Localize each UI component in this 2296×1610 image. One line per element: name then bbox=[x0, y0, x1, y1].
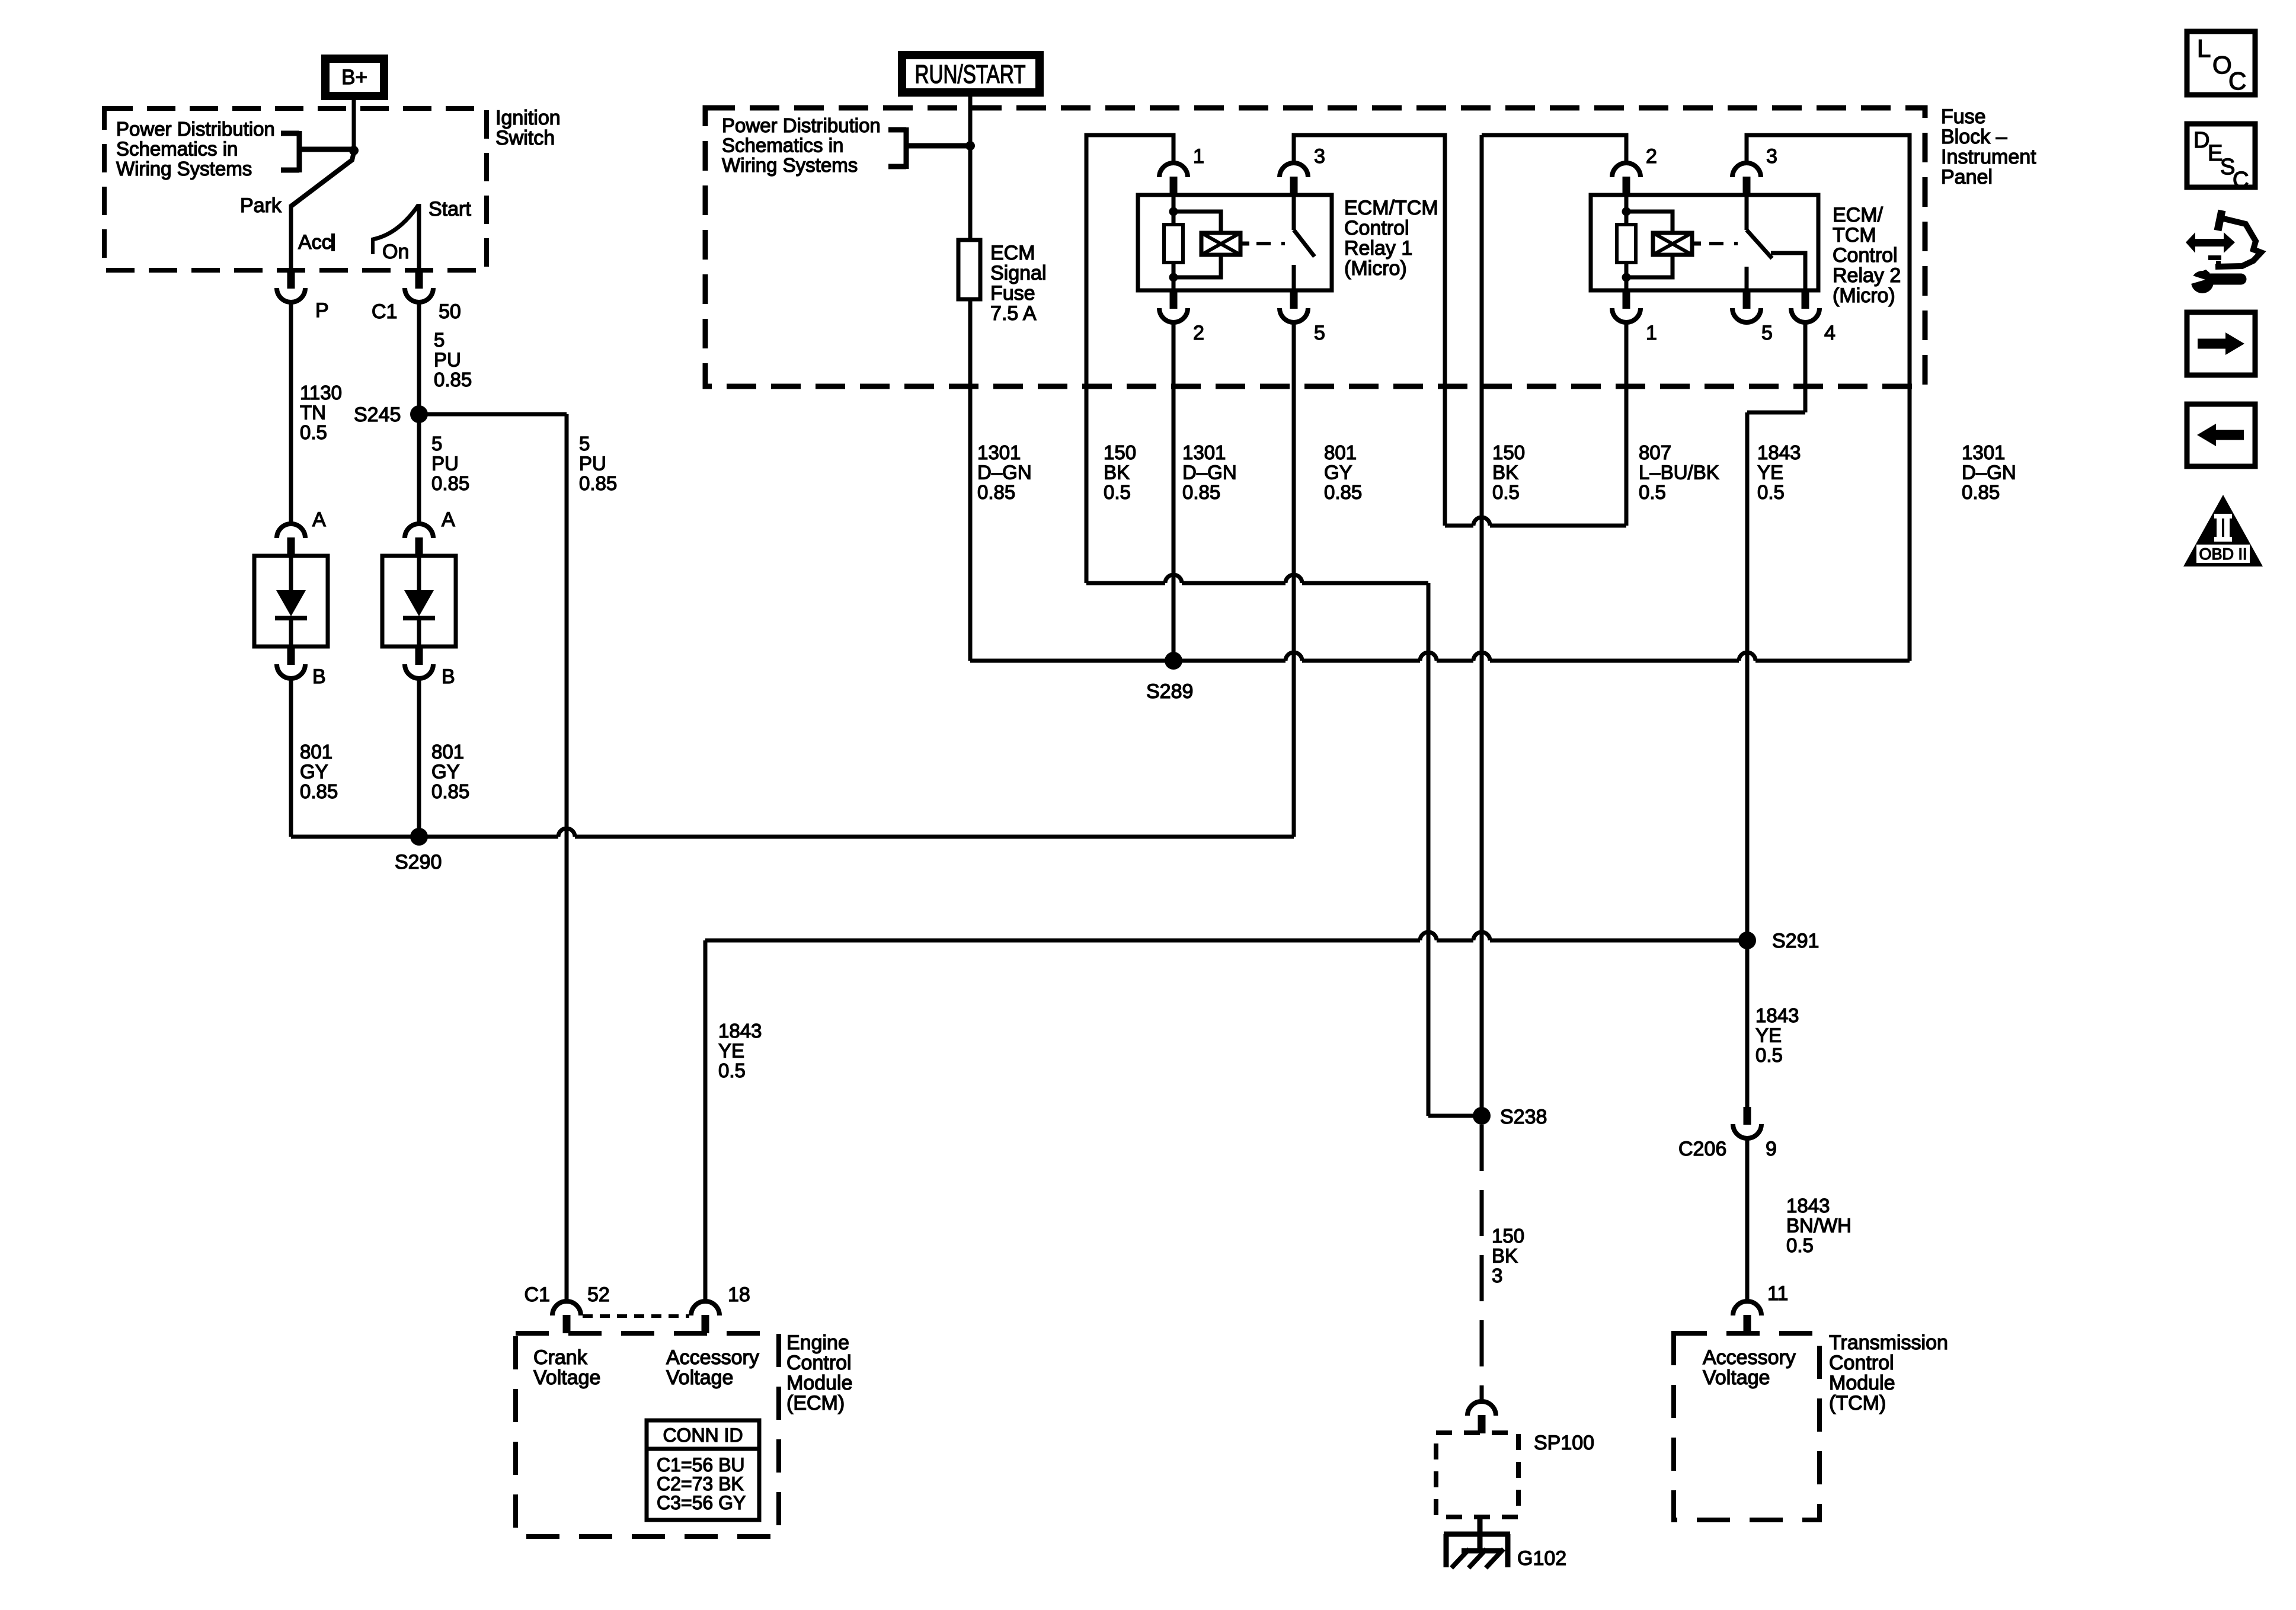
node relay1 top bbox=[1169, 207, 1178, 216]
svg-text:(TCM): (TCM) bbox=[1829, 1392, 1886, 1414]
connector ECM pin 52 bbox=[563, 1315, 571, 1333]
svg-text:GY: GY bbox=[300, 761, 328, 783]
icon forward arrow box bbox=[2187, 312, 2255, 375]
svg-text:Panel: Panel bbox=[1941, 166, 1993, 188]
icon back arrow box bbox=[2187, 404, 2255, 466]
wire 807 L-BU/BK 0.5 (relay2 pin1) bbox=[1625, 321, 1629, 526]
svg-text:Power Distribution: Power Distribution bbox=[722, 114, 881, 136]
svg-text:RUN/START: RUN/START bbox=[915, 60, 1026, 89]
svg-text:Voltage: Voltage bbox=[1703, 1366, 1770, 1389]
svg-text:Module: Module bbox=[1829, 1372, 1895, 1394]
node S238 bbox=[1473, 1107, 1491, 1125]
Acc position tick bbox=[331, 233, 335, 251]
svg-text:BK: BK bbox=[1492, 1245, 1518, 1267]
svg-text:0.5: 0.5 bbox=[1639, 481, 1666, 503]
svg-text:150: 150 bbox=[1492, 1225, 1524, 1247]
connector C206 pin 9 bbox=[1744, 1107, 1751, 1125]
svg-text:C: C bbox=[2228, 67, 2246, 95]
svg-text:5: 5 bbox=[1761, 322, 1773, 344]
svg-text:Block –: Block – bbox=[1941, 126, 2007, 148]
wire loop relay2 pin2 feed (150 upper) bbox=[1482, 135, 1626, 162]
wire S290 horizontal bbox=[291, 835, 1294, 839]
svg-text:CONN ID: CONN ID bbox=[663, 1425, 743, 1446]
svg-text:YE: YE bbox=[718, 1040, 744, 1062]
wire RUN/START down bbox=[968, 97, 973, 143]
svg-text:5: 5 bbox=[431, 433, 442, 454]
connector TCM pin 11 bbox=[1744, 1315, 1751, 1333]
svg-text:PU: PU bbox=[579, 453, 606, 475]
connector relay2 pin2 bbox=[1623, 177, 1630, 195]
svg-text:B: B bbox=[442, 665, 455, 688]
connector relay2 pin1 bbox=[1623, 290, 1630, 309]
fuse ECM Signal Fuse 7.5A bbox=[958, 240, 980, 299]
diode box left bbox=[254, 556, 328, 646]
connector C1-50 (ignition switch output) bbox=[415, 270, 423, 289]
icon vehicle-data double arrow bbox=[2186, 232, 2235, 253]
wire 150 BK 3 dashed (S238 to SP100) bbox=[1480, 1125, 1484, 1400]
node relay2 top bbox=[1622, 207, 1631, 216]
svg-text:52: 52 bbox=[587, 1283, 610, 1306]
CONN ID table bbox=[647, 1420, 759, 1520]
wire 1843 YE down to S291 bbox=[1745, 412, 1750, 940]
svg-text:C206: C206 bbox=[1678, 1138, 1726, 1160]
icon forward arrow bbox=[2198, 339, 2225, 349]
svg-text:S291: S291 bbox=[1772, 930, 1819, 952]
svg-text:OBD II: OBD II bbox=[2199, 545, 2247, 563]
ECM dashed box bbox=[516, 1333, 779, 1537]
svg-text:Control: Control bbox=[786, 1352, 852, 1374]
svg-text:1843: 1843 bbox=[1786, 1195, 1830, 1217]
svg-text:Accessory: Accessory bbox=[1703, 1346, 1796, 1369]
connector C1 dashed tie bbox=[583, 1314, 689, 1318]
svg-text:801: 801 bbox=[300, 741, 332, 763]
svg-text:Relay 1: Relay 1 bbox=[1344, 237, 1412, 260]
svg-text:Wiring Systems: Wiring Systems bbox=[722, 154, 858, 176]
svg-text:150: 150 bbox=[1492, 441, 1525, 463]
svg-text:BK: BK bbox=[1492, 462, 1518, 484]
relay2 coil branch wires bbox=[1626, 212, 1673, 277]
diode box right bbox=[382, 556, 456, 646]
svg-text:C: C bbox=[2233, 168, 2249, 193]
wire 801 GY 0.85 (left to S290) bbox=[289, 677, 293, 837]
connector relay2 pin3 bbox=[1743, 177, 1751, 195]
svg-text:YE: YE bbox=[1755, 1025, 1782, 1046]
svg-text:Power Distribution: Power Distribution bbox=[116, 118, 275, 140]
svg-text:GY: GY bbox=[431, 761, 460, 783]
svg-text:Engine: Engine bbox=[786, 1331, 849, 1354]
svg-text:Fuse: Fuse bbox=[990, 282, 1035, 305]
node relay2 bottom bbox=[1622, 273, 1631, 282]
coil relay2 bbox=[1653, 233, 1692, 255]
svg-text:A: A bbox=[312, 508, 326, 531]
connector relay2 pin4 bbox=[1802, 290, 1809, 309]
wire 150 BK jog (y984) bbox=[1086, 581, 1428, 585]
splice pack SP100 dashed box bbox=[1436, 1433, 1518, 1517]
connector relay1 pin1 bbox=[1170, 177, 1178, 195]
icon wrench bbox=[2191, 271, 2214, 293]
icon DESC box bbox=[2187, 124, 2255, 187]
node S291 bbox=[1738, 932, 1756, 949]
icon vehicle outline bbox=[2218, 210, 2222, 231]
svg-text:ECM: ECM bbox=[990, 242, 1035, 264]
svg-text:1130: 1130 bbox=[300, 382, 342, 404]
svg-text:3: 3 bbox=[1492, 1265, 1502, 1286]
svg-text:S245: S245 bbox=[354, 404, 401, 426]
svg-text:Control: Control bbox=[1829, 1352, 1894, 1374]
wire loop relay1 pin1 feed bbox=[1086, 135, 1173, 583]
svg-text:18: 18 bbox=[728, 1283, 750, 1306]
svg-text:0.5: 0.5 bbox=[1757, 481, 1785, 503]
svg-text:9: 9 bbox=[1766, 1138, 1777, 1160]
svg-text:L–BU/BK: L–BU/BK bbox=[1639, 462, 1719, 484]
connector relay2 pin5 bbox=[1743, 290, 1751, 309]
svg-text:TCM: TCM bbox=[1833, 224, 1876, 247]
wire 801 GY 0.85 (mid to S290) bbox=[417, 677, 421, 837]
svg-text:3: 3 bbox=[1766, 145, 1777, 168]
svg-text:Schematics in: Schematics in bbox=[116, 138, 238, 160]
svg-text:4: 4 bbox=[1824, 322, 1835, 344]
svg-text:Voltage: Voltage bbox=[666, 1366, 733, 1389]
svg-text:0.5: 0.5 bbox=[1786, 1234, 1814, 1256]
svg-text:0.85: 0.85 bbox=[579, 472, 617, 494]
coil relay1 bbox=[1201, 233, 1240, 255]
relay1 bottom wire bbox=[1172, 263, 1176, 290]
svg-text:Wiring Systems: Wiring Systems bbox=[116, 158, 252, 180]
node S245 bbox=[410, 405, 428, 423]
svg-text:1301: 1301 bbox=[1182, 441, 1226, 463]
svg-text:0.85: 0.85 bbox=[300, 780, 338, 802]
wire 5 PU crank voltage (S245 branch to ECM 52) bbox=[565, 414, 569, 1302]
power feed box B+ bbox=[325, 59, 384, 96]
reference bracket (fuse block) bbox=[888, 127, 968, 169]
svg-text:YE: YE bbox=[1757, 462, 1783, 484]
svg-text:1843: 1843 bbox=[718, 1020, 762, 1042]
svg-text:BK: BK bbox=[1104, 462, 1130, 484]
connector relay1 pin3 bbox=[1290, 177, 1298, 195]
ignition switch dashed box bbox=[104, 108, 487, 270]
wire 1130 TN 0.5 (P to fuse A) bbox=[289, 301, 293, 523]
svg-text:0.85: 0.85 bbox=[1324, 481, 1362, 503]
svg-text:2: 2 bbox=[1193, 322, 1204, 344]
svg-text:0.5: 0.5 bbox=[1755, 1044, 1783, 1066]
svg-text:0.85: 0.85 bbox=[431, 472, 469, 494]
wire loop relay1 pin3 to relay2 pin1 (807 upper) bbox=[1294, 135, 1445, 526]
icon OBD II triangle bbox=[2183, 495, 2263, 566]
relay2 bottom wire bbox=[1625, 263, 1629, 290]
svg-text:1: 1 bbox=[1193, 145, 1204, 168]
svg-text:807: 807 bbox=[1639, 441, 1671, 463]
wire 150 BK 0.5 relay1 (pin1 branch down) bbox=[1427, 583, 1431, 1116]
svg-text:Crank: Crank bbox=[533, 1346, 588, 1369]
svg-text:Schematics in: Schematics in bbox=[722, 135, 843, 156]
svg-text:(ECM): (ECM) bbox=[786, 1392, 845, 1414]
relay1 coil feed wire bbox=[1172, 195, 1176, 225]
svg-text:Module: Module bbox=[786, 1372, 853, 1394]
svg-text:Control: Control bbox=[1344, 217, 1409, 239]
svg-text:5: 5 bbox=[579, 433, 590, 454]
node S290 bbox=[410, 828, 428, 846]
wire Start position bbox=[417, 204, 421, 270]
wire loop relay2 pin3 (1301 upper) bbox=[1747, 135, 1910, 661]
wire 5 PU 0.85 (S245 down to fuse A) bbox=[417, 414, 421, 523]
ignition switch lever (B+ to Park) bbox=[291, 152, 354, 206]
wire 150 BK 0.5 relay2 (pin2 branch down) bbox=[1480, 135, 1484, 1116]
svg-text:Control: Control bbox=[1833, 244, 1898, 267]
wire 807 U-bottom bbox=[1445, 524, 1626, 528]
svg-text:Signal: Signal bbox=[990, 262, 1047, 284]
diode symbol right bbox=[417, 556, 421, 591]
svg-text:C1: C1 bbox=[525, 1283, 550, 1306]
svg-text:D–GN: D–GN bbox=[977, 462, 1032, 484]
svg-text:1843: 1843 bbox=[1755, 1004, 1799, 1026]
svg-text:C3=56 GY: C3=56 GY bbox=[657, 1492, 746, 1513]
svg-text:ECM/: ECM/ bbox=[1833, 204, 1884, 226]
node S289 bbox=[1165, 652, 1182, 670]
svg-text:Voltage: Voltage bbox=[533, 1366, 600, 1389]
relay2 switch to pin4 wire bbox=[1771, 253, 1805, 290]
On position tick bbox=[371, 238, 375, 254]
svg-text:PU: PU bbox=[434, 349, 461, 371]
fuse block dashed box bbox=[705, 108, 1925, 386]
On-Start curve bbox=[373, 205, 418, 239]
relay1 switch bbox=[1294, 195, 1315, 290]
svg-text:Relay 2: Relay 2 bbox=[1833, 264, 1901, 287]
relay2 actuator dashes bbox=[1709, 242, 1738, 245]
svg-text:2: 2 bbox=[1646, 145, 1657, 168]
icon LOC box bbox=[2187, 31, 2255, 95]
wire 801 GY 0.85 relay1 pin5 to S290 bbox=[1292, 321, 1296, 837]
svg-text:1: 1 bbox=[1646, 322, 1657, 344]
node RUN/START bracket junction bbox=[965, 141, 975, 151]
svg-text:Fuse: Fuse bbox=[1941, 105, 1986, 128]
svg-text:0.85: 0.85 bbox=[431, 780, 469, 802]
relay U2 box bbox=[1591, 195, 1818, 290]
connector B (left diode) bbox=[287, 646, 295, 665]
wire S289 horizontal bbox=[970, 659, 1910, 663]
wire B+ to ignition switch bbox=[352, 100, 356, 148]
power feed box RUN/START bbox=[902, 55, 1040, 92]
svg-text:S289: S289 bbox=[1146, 680, 1193, 703]
svg-text:1301: 1301 bbox=[977, 441, 1021, 463]
connector P (ignition switch output) bbox=[287, 270, 295, 289]
svg-text:TN: TN bbox=[300, 402, 326, 424]
wire 1843 YE 0.5 (S291 to C206) bbox=[1745, 940, 1750, 1108]
svg-text:Start: Start bbox=[428, 198, 471, 220]
node B+/bracket junction bbox=[349, 146, 359, 155]
svg-text:On: On bbox=[382, 241, 409, 263]
svg-text:B: B bbox=[312, 665, 326, 688]
wire 1301 D-GN 0.85 (fuse to S289) bbox=[968, 299, 973, 661]
reference bracket (Power Distribution) bbox=[281, 131, 351, 172]
resistor relay1 bbox=[1164, 225, 1183, 263]
ground G102 symbol bbox=[1444, 1517, 1510, 1567]
wire S291 horizontal bbox=[705, 939, 1747, 943]
svg-text:7.5 A: 7.5 A bbox=[990, 302, 1037, 325]
connector A (right diode) bbox=[415, 537, 423, 556]
svg-text:SP100: SP100 bbox=[1534, 1432, 1594, 1454]
connector A (left diode) bbox=[287, 537, 295, 556]
wire S238 jog bbox=[1428, 1114, 1482, 1118]
svg-text:5: 5 bbox=[1314, 322, 1325, 344]
svg-text:Instrument: Instrument bbox=[1941, 146, 2036, 168]
svg-text:11: 11 bbox=[1767, 1282, 1788, 1305]
svg-text:S238: S238 bbox=[1500, 1106, 1547, 1128]
diode symbol left bbox=[289, 556, 293, 591]
relay2 coil feed wire bbox=[1625, 195, 1629, 225]
svg-text:Switch: Switch bbox=[495, 127, 555, 149]
svg-text:Transmission: Transmission bbox=[1829, 1331, 1948, 1354]
svg-text:0.5: 0.5 bbox=[718, 1060, 746, 1081]
svg-text:C1=56 BU: C1=56 BU bbox=[657, 1454, 745, 1475]
wire 5 PU 0.85 (50 to S245) bbox=[417, 301, 421, 413]
svg-text:0.85: 0.85 bbox=[434, 369, 472, 391]
svg-text:D–GN: D–GN bbox=[1962, 462, 2016, 484]
svg-text:0.5: 0.5 bbox=[1104, 481, 1131, 503]
svg-text:801: 801 bbox=[431, 741, 464, 763]
wire 1843 BN/WH 0.5 (C206 to TCM) bbox=[1745, 1138, 1750, 1302]
svg-text:0.85: 0.85 bbox=[977, 481, 1015, 503]
wire S245 branch to right bbox=[419, 412, 567, 417]
wire 1301 D-GN 0.85 relay1 pin2 to S289 bbox=[1172, 321, 1176, 661]
wire Park/Acc position bbox=[289, 204, 293, 270]
svg-text:1843: 1843 bbox=[1757, 441, 1801, 463]
svg-text:L: L bbox=[2197, 34, 2211, 62]
connector relay1 pin2 bbox=[1170, 290, 1178, 309]
TCM dashed box bbox=[1674, 1333, 1819, 1520]
svg-text:G102: G102 bbox=[1517, 1547, 1566, 1570]
svg-text:A: A bbox=[442, 508, 455, 531]
svg-text:0.85: 0.85 bbox=[1182, 481, 1220, 503]
svg-text:3: 3 bbox=[1314, 145, 1325, 168]
svg-text:GY: GY bbox=[1324, 462, 1352, 484]
svg-text:C2=73 BK: C2=73 BK bbox=[657, 1473, 744, 1494]
wire 1843 YE 0.5 (ECM 18 to S291) bbox=[703, 940, 708, 1302]
icon back arrow bbox=[2216, 430, 2244, 440]
svg-text:P: P bbox=[315, 299, 329, 322]
connector SP100 splice bbox=[1478, 1415, 1486, 1433]
svg-text:50: 50 bbox=[439, 300, 461, 323]
wire 1843 YE jog (y696) bbox=[1747, 411, 1805, 415]
wire RUN/START to fuse bbox=[968, 146, 973, 240]
svg-text:D–GN: D–GN bbox=[1182, 462, 1237, 484]
relay U1 box bbox=[1138, 195, 1332, 290]
svg-text:0.5: 0.5 bbox=[300, 421, 327, 443]
relay2 switch bbox=[1747, 195, 1772, 290]
node relay1 bottom bbox=[1169, 273, 1178, 282]
connector B (right diode) bbox=[415, 646, 423, 665]
connector relay1 pin5 bbox=[1290, 290, 1298, 309]
svg-text:Park: Park bbox=[240, 194, 282, 217]
svg-text:S290: S290 bbox=[395, 851, 442, 873]
svg-text:Ignition: Ignition bbox=[495, 107, 561, 129]
svg-text:Accessory: Accessory bbox=[666, 1346, 759, 1369]
svg-text:(Micro): (Micro) bbox=[1344, 257, 1407, 280]
svg-text:801: 801 bbox=[1324, 441, 1357, 463]
svg-text:BN/WH: BN/WH bbox=[1786, 1215, 1851, 1237]
svg-text:Acc: Acc bbox=[298, 231, 332, 254]
svg-text:1301: 1301 bbox=[1962, 441, 2005, 463]
svg-text:PU: PU bbox=[431, 453, 459, 475]
relay1 coil branch wires bbox=[1173, 212, 1221, 277]
connector ECM pin 18 bbox=[702, 1315, 709, 1333]
relay1 actuator dashes bbox=[1256, 242, 1285, 245]
svg-text:(Micro): (Micro) bbox=[1833, 284, 1895, 307]
svg-text:5: 5 bbox=[434, 329, 445, 351]
resistor relay2 bbox=[1617, 225, 1636, 263]
svg-text:150: 150 bbox=[1104, 441, 1136, 463]
svg-text:ECM/TCM: ECM/TCM bbox=[1344, 197, 1438, 219]
svg-text:B+: B+ bbox=[341, 66, 367, 89]
svg-text:0.85: 0.85 bbox=[1962, 481, 2000, 503]
svg-text:C1: C1 bbox=[372, 300, 397, 323]
wire 1843 YE 0.5 relay2 pin4 bbox=[1803, 321, 1808, 412]
svg-text:0.5: 0.5 bbox=[1492, 481, 1520, 503]
